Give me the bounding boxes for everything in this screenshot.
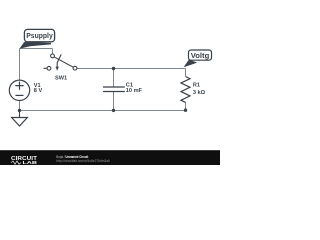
svg-text:http://circuitlab.com/c/5u8e27: http://circuitlab.com/c/5u8e275dm3a6 bbox=[56, 159, 110, 163]
capacitor C1 bbox=[103, 87, 125, 92]
svg-text:Voltg: Voltg bbox=[191, 53, 210, 60]
svg-text:8 V: 8 V bbox=[34, 88, 43, 94]
svg-text:SW1: SW1 bbox=[55, 75, 67, 81]
svg-text:3 kΩ: 3 kΩ bbox=[193, 90, 206, 96]
wire: R1 bottom lead to rail bbox=[185, 102, 187, 110]
node junction: C1 bottom rail bbox=[112, 109, 115, 112]
wire: riser down to SW1 top throw bbox=[52, 49, 54, 55]
svg-text:Psupply: Psupply bbox=[26, 31, 53, 40]
wire: C1 bottom lead to rail bbox=[113, 92, 115, 111]
voltage source V1 bbox=[9, 80, 29, 100]
node junction: C1 top rail bbox=[112, 67, 115, 70]
wire: top rail from SW1 common to R1 corner bbox=[77, 68, 186, 70]
net label Psupply bbox=[19, 29, 54, 48]
svg-text:LAB: LAB bbox=[23, 160, 39, 165]
wire: top-left horizontal from node A to switch riser bbox=[20, 48, 53, 50]
wire: R1 corner drop bbox=[185, 69, 187, 77]
resistor R1 bbox=[181, 77, 190, 103]
svg-text:10 mF: 10 mF bbox=[126, 88, 143, 94]
net label Voltg bbox=[184, 50, 212, 67]
node junction: V1/rail bbox=[18, 109, 21, 112]
wire: bottom rail bbox=[20, 110, 186, 112]
switch SW1 bbox=[44, 54, 77, 71]
footer watermark bar bbox=[0, 150, 220, 165]
wire: V1 - terminal down to bottom rail bbox=[19, 101, 21, 111]
ground bbox=[12, 111, 28, 127]
CircuitLab logo bbox=[11, 156, 38, 165]
node junction: R1 bottom rail bbox=[184, 109, 187, 112]
wire: C1 top tap bbox=[113, 69, 115, 88]
svg-text:R1: R1 bbox=[193, 83, 200, 89]
wire: left vertical from node A down to V1 + terminal bbox=[19, 49, 21, 81]
